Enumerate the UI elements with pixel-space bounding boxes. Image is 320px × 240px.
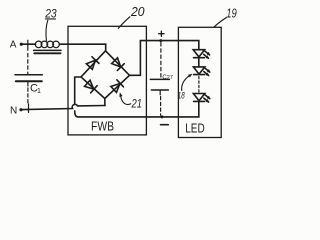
svg-text:19: 19 <box>226 6 237 20</box>
plus rail: bridge right corner up and right to LED chain <box>130 41 199 76</box>
svg-text:LED: LED <box>185 120 205 135</box>
FWB box (rectifier block 20) <box>68 26 146 135</box>
emission arrows LED2 <box>204 68 210 76</box>
capacitor C1 dashed branch lower <box>27 83 29 87</box>
wire inductor to bridge top corner <box>59 44 105 50</box>
diode D-bottomright (21) <box>110 80 123 93</box>
svg-text:N: N <box>10 106 17 117</box>
wire N into bridge (with hop over minus wire) <box>23 104 105 109</box>
terminal N dot <box>19 108 22 111</box>
LED 2 <box>193 67 204 74</box>
inductor 23 coil <box>35 41 59 48</box>
diode D-topright <box>111 57 124 70</box>
leader 23 <box>45 18 55 20</box>
capacitor C1 plates <box>15 74 42 76</box>
svg-text:1: 1 <box>37 88 41 95</box>
capacitor C2 plates <box>150 78 169 80</box>
svg-text:20: 20 <box>130 4 145 19</box>
svg-text:A: A <box>10 40 17 51</box>
emission arrows LED1 <box>204 51 210 59</box>
wire LED1 to LED2 <box>198 58 200 67</box>
svg-text:23: 23 <box>44 9 57 21</box>
bridge diamond <box>81 51 130 99</box>
emission arrows LED3 <box>204 94 210 102</box>
plus sign <box>159 33 164 35</box>
capacitor C2 dashed branch upper <box>160 43 162 78</box>
node tick on N wire <box>28 104 30 113</box>
svg-text:27: 27 <box>167 75 173 81</box>
wire A to inductor <box>23 43 36 45</box>
leader arrow 18 <box>182 76 190 91</box>
svg-text:21: 21 <box>131 97 142 111</box>
capacitor C1 dashed branch upper <box>27 54 29 74</box>
inductor core lines <box>34 49 61 51</box>
leader 19 <box>214 18 226 28</box>
leader 20 <box>118 17 130 29</box>
minus sign <box>161 124 169 126</box>
LED 3 (18) <box>193 94 204 101</box>
LED 1 <box>193 50 204 57</box>
terminal A dot <box>20 43 23 46</box>
diode D-bottomleft <box>84 80 97 93</box>
junction dot on minus rail <box>161 115 164 118</box>
svg-text:FWB: FWB <box>91 119 114 134</box>
node tick on A wire (C1 branch) <box>27 40 29 50</box>
stub up to bridge bottom corner <box>104 99 106 106</box>
capacitor C2 dashed branch lower <box>159 90 161 95</box>
svg-text:18: 18 <box>178 91 185 102</box>
diode D-topleft <box>86 57 99 70</box>
junction dot on plus rail <box>159 39 162 42</box>
leader arrow 21 <box>121 96 131 105</box>
minus wire: bridge left corner down (hop gap) to minus rail <box>75 77 81 104</box>
dashed (more LEDs) <box>198 77 200 92</box>
LED box (block 19) <box>178 27 221 137</box>
